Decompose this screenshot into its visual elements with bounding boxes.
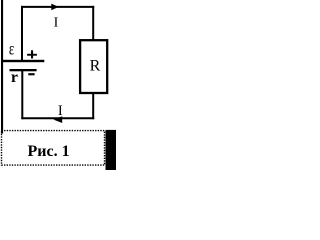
wire: bottom horizontal run <box>21 117 94 119</box>
battery B1 long plate (positive terminal) <box>3 60 45 62</box>
battery B1 short plate (negative terminal) <box>10 69 37 71</box>
polarity plus sign <box>27 54 37 56</box>
wire: top-right corner down to resistor top <box>92 6 94 41</box>
svg-text:I: I <box>54 16 59 31</box>
polarity minus sign <box>28 73 34 75</box>
svg-text:r: r <box>11 69 18 86</box>
svg-text:I: I <box>58 103 63 119</box>
wire: resistor bottom down to bottom-right corner <box>92 93 94 119</box>
svg-text:Рис. 1: Рис. 1 <box>28 143 70 160</box>
resistor R (rectangle body) <box>80 40 107 93</box>
wire: battery negative plate down to bottom-left corner <box>21 71 23 120</box>
black rectangle, bottom-right document crop artifact <box>106 130 117 170</box>
svg-text:ε: ε <box>9 39 15 59</box>
left document frame bar <box>1 0 3 134</box>
wire: top horizontal run <box>21 6 94 8</box>
svg-text:R: R <box>90 58 101 75</box>
wire: battery positive plate up to top-left corner <box>21 6 23 61</box>
current direction arrow, bottom wire (points left) <box>54 116 63 123</box>
current direction arrow, top wire (points right) <box>51 4 58 11</box>
caption dotted border box <box>2 131 105 166</box>
